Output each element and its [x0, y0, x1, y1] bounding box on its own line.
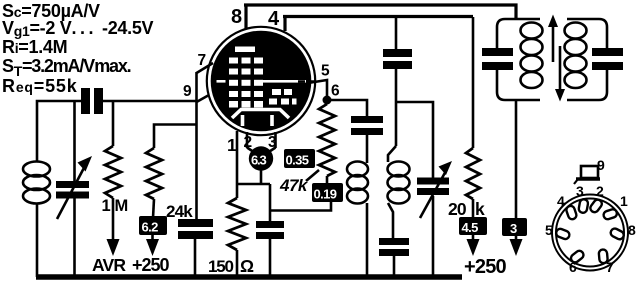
tube internal: grid dashes left [229, 58, 263, 108]
wire: rail B (pin 4 to 20k branch) [283, 15, 473, 18]
inductor L4 IF primary coil [521, 23, 543, 89]
wire: bracket pin3 to heater circle [268, 148, 276, 153]
svg-text:20: 20 [448, 199, 467, 219]
IF transformer T1 primary outline [497, 19, 540, 100]
wire: pin 5 stub [308, 80, 327, 100]
variable capacitor C8 oscillator tuning [417, 161, 452, 277]
inductor L5 IF secondary coil [565, 23, 587, 89]
svg-text:4.5: 4.5 [462, 220, 479, 235]
svg-text:+250: +250 [132, 255, 170, 275]
wire: pin 1 stub down to cathode node [236, 131, 239, 184]
svg-text:8: 8 [231, 6, 242, 28]
variable capacitor C2 antenna tuning [56, 101, 92, 277]
svg-text:47k: 47k [279, 176, 309, 195]
svg-text:+250: +250 [464, 256, 507, 278]
svg-text:0.35: 0.35 [286, 153, 309, 168]
wire: tank top to variable capacitor branch [396, 102, 433, 179]
capacitor C6 from rail B down to oscillator tank [383, 18, 412, 146]
wire: heater circle to cathode wire [260, 169, 263, 184]
capacitor C3 bypass at 24k node [178, 219, 213, 277]
svg-text:1: 1 [620, 193, 628, 209]
svg-text:k: k [475, 199, 485, 219]
capacitor C1 coupling (series in grid wire) [81, 88, 103, 114]
tube U1 envelope outer circle [207, 27, 315, 135]
svg-text:1: 1 [102, 197, 111, 215]
resistor R1 1M grid leak to AVR [105, 101, 121, 256]
marker box 0.19 [312, 183, 343, 202]
wire: pin7/pin9 vertical node down to 24k elbow and bypass cap [195, 72, 198, 219]
svg-text:7: 7 [198, 52, 207, 69]
resistor R3 150 ohm cathode [228, 184, 246, 277]
svg-text:M: M [115, 197, 129, 215]
divider dashed line outside right [298, 80, 316, 82]
marker box 6.2 [139, 216, 167, 235]
svg-text:6.2: 6.2 [142, 220, 159, 235]
inductor L2 oscillator coil left [347, 162, 368, 278]
wire: pin 7 stub (diagonal to tube) [197, 63, 214, 73]
tuning arrows between IF coils [548, 15, 565, 102]
svg-text:8: 8 [628, 222, 636, 238]
svg-text:2: 2 [596, 183, 604, 199]
svg-text:6: 6 [569, 259, 577, 275]
svg-text:Req=55k: Req=55k [2, 76, 78, 96]
wire: IF transformer primary bottom to 3 marker [515, 100, 518, 219]
wire: pin 4 stub to rail B [283, 16, 286, 31]
wire: rail A (pin 8 to IF transformer primary top) [244, 5, 516, 19]
marker box 0.35 [284, 149, 315, 168]
tube U1 inner disc [211, 31, 312, 132]
capacitor C9 primary tuning [482, 48, 513, 70]
svg-text:5: 5 [321, 63, 330, 80]
svg-text:Ri=1.4M: Ri=1.4M [2, 37, 67, 57]
wire: pin 3 stub [274, 132, 277, 148]
svg-text:3: 3 [510, 221, 517, 236]
wire: elbow to 24k resistor [154, 125, 197, 149]
heater marker 6.3 circle [249, 146, 273, 170]
svg-text:AVR: AVR [92, 255, 126, 275]
svg-text:Ω: Ω [240, 256, 254, 276]
resistor R5 20k screen feed to +250 [466, 17, 480, 218]
capacitor C5 oscillator coupling [351, 116, 383, 163]
tube socket top cap symbol [574, 166, 600, 184]
inductor L1 antenna coil [23, 162, 50, 278]
tube internal: anode bar [235, 47, 255, 53]
wire: pin 2 stub [246, 132, 249, 148]
wire: coupling cap to pins 9/7 node [103, 100, 197, 103]
svg-text:1: 1 [227, 135, 237, 155]
capacitor C7 below oscillator coil right [379, 238, 409, 277]
spec text block [2, 1, 154, 96]
wire: pin6 node to oscillator coupling cap [331, 100, 367, 116]
svg-text:6.3: 6.3 [251, 153, 266, 168]
svg-text:7: 7 [606, 259, 614, 275]
resistor R4 47k oscillator grid leak [319, 104, 335, 184]
wire: bracket pin2 to heater circle [247, 148, 255, 153]
resistor R2 24k (6.2 marker) to +250 [146, 148, 162, 218]
tube internal: grid dashes right [269, 89, 297, 105]
wire: pin 8 stub to rail A [244, 4, 247, 29]
svg-text:150: 150 [208, 257, 234, 276]
svg-text:4: 4 [557, 193, 565, 209]
svg-text:3: 3 [576, 183, 584, 199]
marker box 3 [502, 218, 527, 236]
wire: grid top wire from antenna tank to coupling cap [37, 101, 81, 162]
inductor L3 oscillator coil right [388, 146, 410, 238]
socket pin labels [545, 183, 636, 275]
svg-text:9: 9 [183, 83, 192, 100]
wire: cathode node horizontal [237, 183, 270, 186]
svg-text:9: 9 [597, 157, 605, 173]
svg-text:5: 5 [545, 222, 553, 238]
wire: 47k return to cathode node [270, 202, 331, 211]
wire: pin 9 stub (diagonal to tube) [197, 95, 210, 102]
socket pins [555, 197, 626, 267]
IF transformer T1 secondary outline [567, 19, 607, 100]
tube socket base diagram [552, 195, 628, 271]
svg-text:24k: 24k [166, 202, 193, 221]
tube internal: divider line white [263, 80, 306, 83]
svg-text:4: 4 [268, 8, 280, 30]
svg-text:0.19: 0.19 [314, 187, 337, 202]
tube internal: cathode [232, 110, 289, 127]
capacitor C10 secondary tuning [592, 48, 623, 70]
svg-text:6: 6 [331, 83, 340, 100]
capacitor C4 cathode bypass [256, 184, 284, 277]
marker box 4.5 [459, 217, 487, 235]
node junction dot pin5/pin6 [323, 96, 332, 105]
bottom ground rail [36, 274, 462, 280]
